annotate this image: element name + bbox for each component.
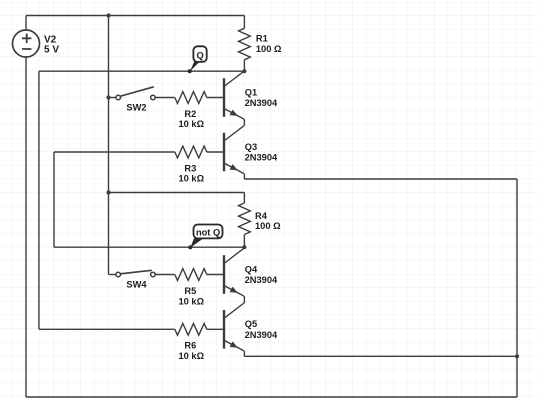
wire R3 to Q3 base	[207, 151, 224, 153]
svg-text:Q3: Q3	[245, 142, 257, 152]
svg-text:10 kΩ: 10 kΩ	[179, 296, 205, 306]
wire SW2 to R2	[155, 97, 175, 99]
wire bottom ground rail	[26, 396, 517, 398]
wire R1 bottom stub	[243, 60, 245, 71]
svg-text:10 kΩ: 10 kΩ	[179, 119, 205, 129]
svg-text:5 V: 5 V	[44, 45, 59, 56]
svg-text:R3: R3	[184, 163, 196, 173]
junction dot node Q	[242, 69, 246, 73]
svg-text:100 Ω: 100 Ω	[256, 44, 282, 54]
svg-text:100 Ω: 100 Ω	[255, 221, 281, 231]
junction dot node notQ	[242, 245, 246, 249]
svg-text:R5: R5	[184, 286, 196, 296]
transistor Q5	[224, 303, 278, 351]
junction dot top rail	[106, 13, 110, 17]
resistor R6	[175, 323, 207, 361]
svg-text:R2: R2	[184, 109, 196, 119]
svg-text:not Q: not Q	[196, 227, 220, 237]
junction dot R4 branch	[106, 190, 110, 194]
wire Q4 collector stub	[243, 247, 245, 248]
wire SW2 stub	[109, 97, 116, 99]
transistor Q1	[224, 71, 278, 119]
wire SW4 to R5	[155, 274, 175, 276]
wire R4 bottom stub	[243, 235, 245, 248]
svg-text:2N3904: 2N3904	[245, 330, 278, 340]
resistor R2	[175, 92, 207, 130]
transistor Q3	[224, 126, 278, 174]
wire Q4 emitter to Q5 collector	[243, 296, 245, 303]
resistor R5	[175, 269, 207, 307]
resistor R3	[175, 146, 207, 184]
voltage source V2	[13, 30, 60, 57]
svg-text:Q: Q	[196, 51, 203, 61]
svg-text:2N3904: 2N3904	[245, 275, 278, 285]
wire R5 to Q4 base	[207, 274, 224, 276]
transistor Q4	[224, 248, 278, 296]
svg-text:10 kΩ: 10 kΩ	[179, 174, 205, 184]
wire node notQ horizontal	[54, 246, 244, 248]
wire Q5 emitter stub	[243, 351, 245, 356]
svg-text:10 kΩ: 10 kΩ	[179, 351, 205, 361]
label callout not Q	[188, 225, 222, 250]
wire SW4 stub	[109, 274, 116, 276]
wire right riser	[516, 179, 518, 397]
svg-text:Q5: Q5	[245, 319, 257, 329]
wire Q3 emitter stub	[243, 174, 245, 179]
wire V2 bottom drop	[25, 57, 27, 397]
wire supply drop column	[108, 16, 110, 275]
wire V2 top stub	[25, 16, 27, 31]
resistor R1	[239, 28, 282, 60]
wire R3 row left	[54, 151, 175, 153]
wire R6 to Q5 base	[207, 328, 224, 330]
wire R2 to Q1 base	[207, 97, 224, 99]
wire R4 top stub	[243, 193, 245, 204]
wire node Q to R6	[39, 328, 175, 330]
label callout Q	[188, 46, 207, 73]
resistor R4	[239, 203, 282, 235]
svg-text:R1: R1	[256, 34, 268, 44]
svg-text:Q4: Q4	[245, 264, 258, 274]
junction dot SW2 branch	[106, 95, 110, 99]
wire node Q left vertical	[38, 71, 40, 329]
wire Q5 emitter rail	[244, 355, 517, 357]
junction dot emitter rail	[515, 354, 519, 358]
wire R1 top stub	[243, 16, 245, 29]
wire Q1 emitter to Q3 collector	[243, 119, 245, 126]
svg-text:2N3904: 2N3904	[245, 98, 278, 108]
svg-text:SW4: SW4	[126, 279, 147, 289]
wire node notQ left vertical	[53, 152, 55, 247]
svg-text:2N3904: 2N3904	[245, 153, 278, 163]
wire Q3 emitter rail	[244, 178, 517, 180]
switch SW4	[116, 270, 155, 289]
wire node Q horizontal	[39, 70, 245, 72]
svg-text:R6: R6	[184, 341, 196, 351]
svg-text:R4: R4	[255, 211, 268, 221]
wire R4 top row	[109, 192, 245, 194]
switch SW2	[116, 87, 155, 113]
svg-text:SW2: SW2	[126, 102, 146, 112]
wire top rail V+	[26, 15, 244, 17]
svg-text:Q1: Q1	[245, 87, 257, 97]
